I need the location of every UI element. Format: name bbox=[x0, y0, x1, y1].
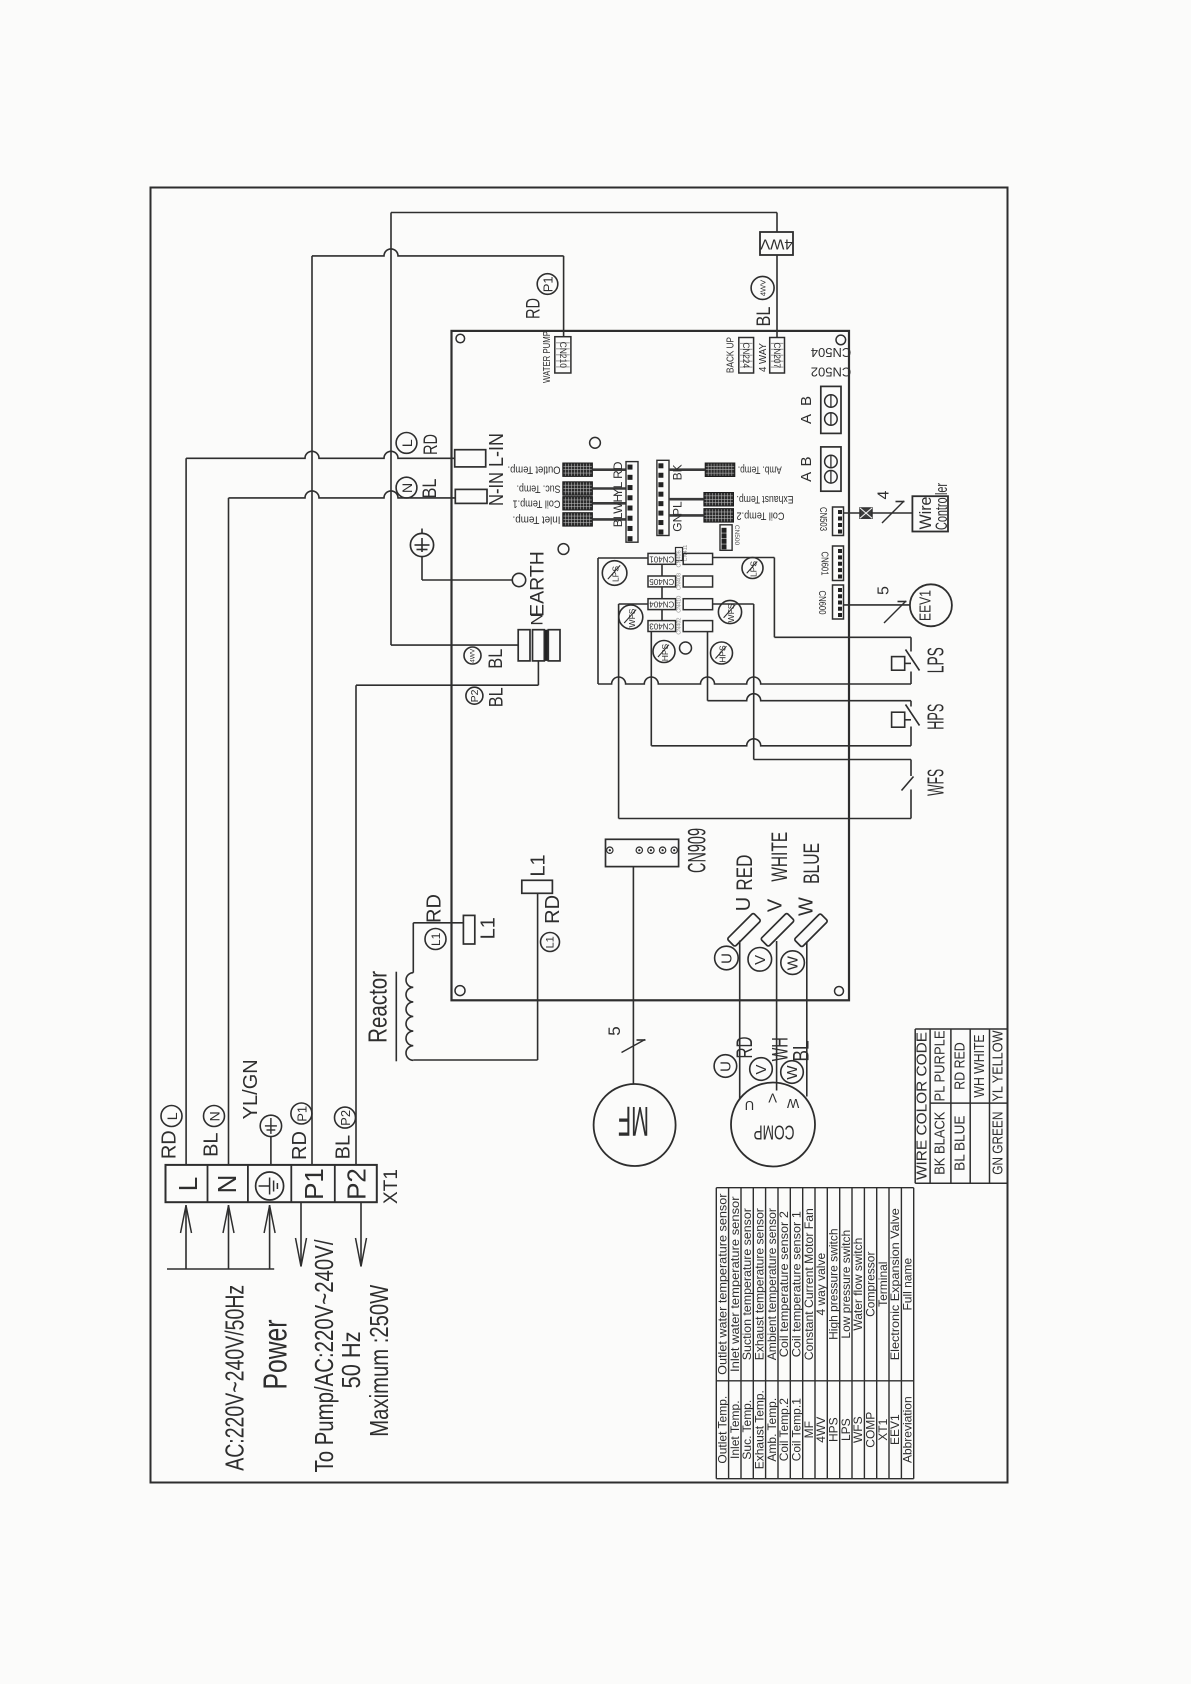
svg-text:CN404: CN404 bbox=[649, 600, 674, 609]
svg-text:CN408: CN408 bbox=[676, 573, 682, 590]
svg-text:4 WAY: 4 WAY bbox=[758, 343, 769, 372]
svg-text:U: U bbox=[745, 1098, 754, 1113]
svg-text:CN207: CN207 bbox=[772, 342, 782, 368]
svg-text:L1: L1 bbox=[429, 932, 443, 946]
svg-text:YL YELLOW: YL YELLOW bbox=[991, 1030, 1007, 1101]
svg-text:BL: BL bbox=[788, 1041, 813, 1062]
svg-text:CN502: CN502 bbox=[811, 364, 851, 379]
svg-text:V: V bbox=[753, 1064, 770, 1074]
svg-text:WIRE COLOR CODE: WIRE COLOR CODE bbox=[915, 1032, 931, 1180]
svg-text:BL: BL bbox=[419, 478, 441, 498]
svg-text:Suc. Temp.: Suc. Temp. bbox=[517, 483, 561, 495]
svg-text:N: N bbox=[212, 1175, 242, 1194]
svg-text:N: N bbox=[207, 1111, 223, 1121]
svg-text:A: A bbox=[798, 414, 815, 424]
svg-text:BL: BL bbox=[201, 1132, 223, 1156]
svg-text:5: 5 bbox=[605, 1026, 624, 1035]
svg-text:COMP: COMP bbox=[754, 1121, 795, 1143]
svg-text:P1: P1 bbox=[299, 1168, 329, 1200]
svg-text:AC:220V~240V/50Hz: AC:220V~240V/50Hz bbox=[220, 1285, 250, 1471]
svg-text:WATER PUMP: WATER PUMP bbox=[542, 331, 553, 383]
svg-text:RD: RD bbox=[159, 1130, 181, 1159]
svg-text:CN402: CN402 bbox=[676, 618, 682, 635]
svg-text:BL: BL bbox=[485, 649, 507, 669]
svg-text:BL: BL bbox=[332, 1135, 354, 1159]
svg-text:A: A bbox=[798, 472, 815, 482]
svg-text:Power: Power bbox=[257, 1319, 294, 1389]
svg-text:B: B bbox=[798, 396, 815, 406]
svg-text:CN403: CN403 bbox=[649, 622, 674, 631]
svg-text:CN210: CN210 bbox=[558, 342, 568, 368]
svg-text:L: L bbox=[173, 1177, 203, 1191]
svg-text:50 Hz: 50 Hz bbox=[336, 1331, 366, 1388]
svg-text:CN909: CN909 bbox=[684, 828, 712, 873]
svg-text:L: L bbox=[164, 1112, 180, 1120]
svg-text:HPS: HPS bbox=[923, 704, 949, 730]
svg-text:CN405: CN405 bbox=[649, 577, 674, 586]
svg-text:4WV: 4WV bbox=[759, 280, 768, 296]
svg-text:Coil Temp.2: Coil Temp.2 bbox=[737, 509, 785, 521]
svg-text:GN: GN bbox=[671, 514, 685, 532]
svg-text:P2: P2 bbox=[469, 689, 481, 702]
svg-text:L1: L1 bbox=[528, 854, 550, 876]
svg-text:To Pump/AC:220V~240V/: To Pump/AC:220V~240V/ bbox=[309, 1239, 339, 1473]
svg-text:MF: MF bbox=[618, 1098, 649, 1145]
svg-text:CN406: CN406 bbox=[676, 550, 682, 567]
svg-text:XT1: XT1 bbox=[381, 1169, 402, 1204]
svg-text:CN224: CN224 bbox=[741, 342, 751, 368]
svg-text:4: 4 bbox=[876, 490, 893, 499]
svg-text:U: U bbox=[718, 953, 735, 964]
svg-text:W: W bbox=[786, 1096, 799, 1111]
svg-text:Reactor: Reactor bbox=[362, 971, 392, 1043]
svg-text:Inlet Temp.: Inlet Temp. bbox=[513, 513, 561, 525]
svg-text:RD: RD bbox=[542, 895, 564, 924]
svg-text:WH WHITE: WH WHITE bbox=[972, 1034, 988, 1097]
svg-text:RD: RD bbox=[420, 434, 442, 455]
svg-text:RED: RED bbox=[732, 855, 757, 891]
svg-text:LPS: LPS bbox=[923, 647, 949, 673]
svg-text:L1: L1 bbox=[544, 936, 556, 948]
svg-text:RD: RD bbox=[611, 461, 625, 479]
svg-text:B: B bbox=[798, 456, 815, 466]
svg-text:CN410: CN410 bbox=[676, 596, 682, 613]
svg-text:Coil Temp.1: Coil Temp.1 bbox=[513, 497, 561, 509]
svg-text:N: N bbox=[399, 483, 415, 493]
svg-text:BACK UP: BACK UP bbox=[726, 337, 737, 373]
svg-text:WHITE: WHITE bbox=[767, 832, 792, 882]
svg-text:RD: RD bbox=[732, 1037, 757, 1059]
svg-text:Controller: Controller bbox=[932, 483, 951, 530]
svg-text:PL PURPLE: PL PURPLE bbox=[933, 1030, 949, 1101]
svg-text:RD: RD bbox=[523, 298, 545, 319]
svg-text:L1: L1 bbox=[478, 917, 500, 939]
svg-text:N-IN: N-IN bbox=[486, 472, 508, 506]
svg-text:L: L bbox=[399, 439, 415, 447]
svg-text:P1: P1 bbox=[541, 276, 556, 292]
svg-text:RD: RD bbox=[424, 894, 446, 923]
svg-text:Exhaust Temp.: Exhaust Temp. bbox=[737, 493, 794, 505]
svg-text:CN500: CN500 bbox=[733, 525, 740, 546]
svg-text:L-IN: L-IN bbox=[486, 433, 508, 467]
svg-text:Abbreviation: Abbreviation bbox=[901, 1396, 915, 1463]
svg-text:4WV: 4WV bbox=[470, 648, 477, 663]
svg-text:CN401: CN401 bbox=[649, 554, 674, 563]
svg-text:5: 5 bbox=[876, 586, 893, 595]
svg-text:W: W bbox=[796, 897, 818, 916]
svg-text:Maximum :250W: Maximum :250W bbox=[364, 1284, 394, 1436]
svg-text:BK: BK bbox=[671, 464, 685, 480]
svg-text:4WV: 4WV bbox=[760, 235, 793, 252]
svg-text:V: V bbox=[768, 1090, 777, 1105]
svg-text:BLUE: BLUE bbox=[799, 843, 824, 884]
svg-text:Amb. Temp.: Amb. Temp. bbox=[738, 464, 782, 476]
svg-text:BK BLACK: BK BLACK bbox=[933, 1111, 949, 1174]
svg-text:W: W bbox=[784, 1065, 801, 1080]
svg-text:U: U bbox=[717, 1061, 734, 1072]
svg-text:BL: BL bbox=[611, 512, 625, 527]
svg-text:Full name: Full name bbox=[901, 1258, 915, 1311]
svg-text:BL BLUE: BL BLUE bbox=[953, 1115, 969, 1171]
svg-text:PL: PL bbox=[671, 501, 685, 516]
svg-text:EEV1: EEV1 bbox=[918, 590, 935, 621]
svg-text:BL: BL bbox=[753, 306, 775, 326]
svg-text:EARTH: EARTH bbox=[527, 551, 549, 617]
svg-text:WFS: WFS bbox=[923, 769, 949, 796]
svg-text:V: V bbox=[752, 955, 769, 965]
svg-text:RD: RD bbox=[289, 1131, 311, 1160]
svg-text:YL/GN: YL/GN bbox=[240, 1059, 262, 1119]
svg-text:U: U bbox=[733, 897, 755, 911]
svg-text:WH: WH bbox=[611, 494, 625, 514]
svg-text:P2: P2 bbox=[342, 1168, 372, 1200]
svg-text:P1: P1 bbox=[294, 1106, 309, 1122]
svg-text:CN504: CN504 bbox=[811, 345, 851, 360]
svg-text:W: W bbox=[785, 955, 802, 970]
svg-text:CN600: CN600 bbox=[816, 591, 828, 615]
svg-text:BL: BL bbox=[485, 687, 507, 707]
svg-text:P2: P2 bbox=[338, 1110, 353, 1126]
svg-text:RD RED: RD RED bbox=[953, 1042, 969, 1089]
svg-text:GN GREEN: GN GREEN bbox=[991, 1112, 1007, 1175]
svg-text:V: V bbox=[765, 898, 787, 912]
svg-text:CN601: CN601 bbox=[819, 552, 831, 576]
svg-text:CN503: CN503 bbox=[817, 507, 829, 531]
svg-text:Outlet Temp.: Outlet Temp. bbox=[508, 464, 561, 476]
